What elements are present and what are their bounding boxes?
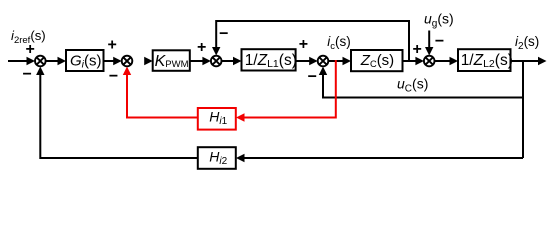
svg-text:ic(s): ic(s) (327, 34, 351, 52)
svg-text:+: + (26, 41, 35, 58)
svg-text:+: + (413, 41, 422, 58)
svg-text:Gi(s): Gi(s) (70, 52, 102, 70)
svg-text:ZC(s): ZC(s) (360, 52, 394, 69)
svg-text:−: − (23, 66, 32, 83)
svg-text:−: − (308, 69, 317, 86)
svg-text:i2(s): i2(s) (515, 34, 539, 52)
svg-text:−: − (435, 33, 444, 50)
svg-text:−: − (109, 68, 118, 85)
svg-text:−: − (219, 26, 228, 43)
svg-text:+: + (108, 36, 117, 53)
svg-text:ug(s): ug(s) (424, 11, 454, 30)
svg-text:+: + (299, 36, 308, 53)
svg-text:+: + (197, 39, 206, 56)
svg-text:uC(s): uC(s) (397, 75, 428, 94)
